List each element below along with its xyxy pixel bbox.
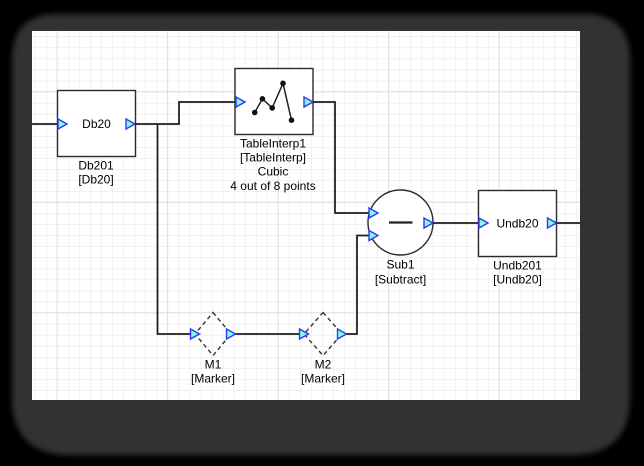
wire: M1 to M2 bbox=[236, 333, 301, 335]
port arrow: Db20 output bbox=[126, 119, 135, 129]
port arrow: M1 right bbox=[227, 329, 236, 339]
svg-text:[Undb20]: [Undb20] bbox=[493, 273, 542, 287]
wire: Sub1 output to Undb20 input bbox=[433, 222, 479, 224]
svg-text:M2: M2 bbox=[315, 358, 332, 372]
wire: junction down to M1 bbox=[158, 124, 192, 334]
svg-text:Undb201: Undb201 bbox=[493, 259, 542, 273]
port arrow: TableInterp input bbox=[236, 97, 245, 107]
svg-text:[Marker]: [Marker] bbox=[301, 372, 345, 386]
svg-text:Db201: Db201 bbox=[78, 159, 114, 173]
svg-text:M1: M1 bbox=[205, 358, 222, 372]
svg-text:[TableInterp]: [TableInterp] bbox=[240, 151, 306, 165]
svg-text:Db20: Db20 bbox=[82, 117, 111, 131]
port arrow: M1 left bbox=[191, 329, 200, 339]
svg-text:[Subtract]: [Subtract] bbox=[375, 272, 426, 286]
svg-text:Cubic: Cubic bbox=[258, 165, 289, 179]
wire: left edge to Db20 input bbox=[32, 123, 58, 125]
op Sub1 circle bbox=[368, 190, 433, 255]
block TableInterp1 bbox=[235, 69, 313, 135]
port arrow: TableInterp output bbox=[304, 97, 313, 107]
marker M1 diamond bbox=[195, 313, 231, 356]
wire: Undb20 output to right edge bbox=[557, 222, 581, 224]
label TableInterp1 bbox=[230, 137, 315, 194]
svg-text:4 out of 8 points: 4 out of 8 points bbox=[230, 179, 315, 193]
wire: Db20 output to TableInterp input bbox=[135, 102, 236, 124]
port arrow: M2 right bbox=[338, 329, 347, 339]
port arrow: M2 left bbox=[300, 329, 309, 339]
label Sub1 bbox=[375, 258, 426, 287]
svg-text:TableInterp1: TableInterp1 bbox=[240, 137, 306, 151]
block Undb20 bbox=[479, 191, 557, 257]
label M1 bbox=[191, 358, 235, 386]
port arrow: Undb20 input bbox=[479, 218, 488, 228]
svg-text:Sub1: Sub1 bbox=[386, 258, 414, 272]
label M2 bbox=[301, 358, 345, 386]
wire: M2 to Sub1 lower input bbox=[347, 236, 370, 335]
label Undb201 bbox=[493, 259, 542, 287]
wire: TableInterp output to Sub1 upper input bbox=[313, 102, 369, 213]
port arrow: Db20 input bbox=[58, 119, 67, 129]
canvas bbox=[32, 31, 580, 400]
label Db201 bbox=[78, 159, 114, 187]
svg-text:Undb20: Undb20 bbox=[496, 217, 538, 231]
svg-text:[Marker]: [Marker] bbox=[191, 372, 235, 386]
port arrow: Undb20 output bbox=[548, 218, 557, 228]
port arrow: Sub1 lower input bbox=[369, 231, 378, 241]
port arrow: Sub1 upper input bbox=[369, 208, 378, 218]
port arrow: Sub1 output bbox=[424, 218, 433, 228]
block Db20 bbox=[58, 91, 136, 157]
icon: interpolation polyline bbox=[252, 81, 294, 123]
marker M2 diamond bbox=[304, 313, 342, 356]
svg-text:[Db20]: [Db20] bbox=[78, 173, 113, 187]
